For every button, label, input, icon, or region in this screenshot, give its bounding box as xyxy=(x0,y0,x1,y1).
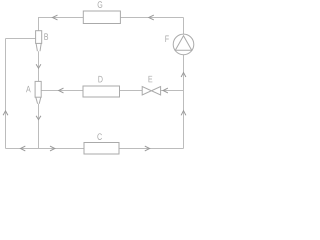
wire middle run D to valve E xyxy=(41,90,142,92)
flow arrow left toward corner on bottom run xyxy=(21,146,26,151)
ejector A body xyxy=(35,81,41,97)
label G xyxy=(98,1,103,8)
flow arrow up into compressor F xyxy=(181,73,186,78)
wire ejector A outlet down to bottom run xyxy=(38,104,40,149)
heat exchanger C xyxy=(84,143,119,155)
ejector B nozzle xyxy=(36,43,41,51)
label A xyxy=(26,86,31,92)
wire right riser down to bottom run xyxy=(183,18,185,149)
flow arrow up on right riser xyxy=(181,111,186,116)
heat exchanger D xyxy=(83,86,120,97)
flow arrow top wire left toward G xyxy=(149,15,154,20)
label C xyxy=(97,133,101,140)
wire top run from B riser to right riser xyxy=(39,18,184,31)
ejector B body xyxy=(36,31,42,44)
label E xyxy=(149,76,153,82)
flow arrow down from A to bottom run xyxy=(36,116,41,120)
flow arrow up on left riser xyxy=(3,111,8,115)
label F xyxy=(165,36,168,42)
wire left feed into ejector B xyxy=(6,38,36,40)
flow arrow right from A junction on bottom run xyxy=(50,146,55,151)
compressor F triangle xyxy=(175,36,191,51)
wire ejector B outlet down to ejector A xyxy=(38,51,40,81)
ejector A nozzle xyxy=(36,97,41,104)
wire bottom run xyxy=(6,148,184,150)
flow arrow top wire left toward B xyxy=(53,15,58,20)
wire left riser xyxy=(5,39,7,149)
flow arrow middle wire left into ejector A xyxy=(59,88,64,93)
flow arrow middle wire left into valve E xyxy=(163,88,168,93)
compressor F circle xyxy=(173,34,194,55)
expansion valve E xyxy=(142,87,160,96)
flow arrow right toward C on bottom run xyxy=(145,146,150,151)
label D xyxy=(98,76,102,82)
heat exchanger G xyxy=(83,11,120,24)
wire valve E to right riser xyxy=(161,90,184,92)
flow arrow down from B to A xyxy=(36,64,41,68)
label B xyxy=(44,33,48,39)
